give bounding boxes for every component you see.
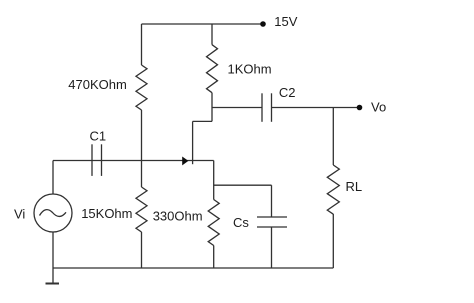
wire 330 bottom [213,246,215,269]
svg-text:RL: RL [346,179,363,194]
resistor R4 330Ohm [208,200,219,246]
svg-text:Vi: Vi [14,207,25,222]
wire drain [211,93,213,122]
wire 470K bottom to gate node [141,110,143,187]
wire gate and source line [53,160,214,162]
ground bar [46,283,60,285]
wire RL branch upper [332,108,334,166]
wire 470K branch upper [141,24,143,65]
transistor Q1 gate arrow [182,157,188,166]
svg-text:470KOhm: 470KOhm [68,77,127,92]
wire 15K bottom [141,232,143,268]
wire Vi bottom [52,232,54,268]
source Vi circle [34,194,72,232]
wire source to Cs [214,184,272,186]
svg-text:Vo: Vo [371,100,386,115]
wire top rail [142,23,264,25]
resistor RL [327,165,339,214]
source Vi sine [40,210,67,217]
transistor Q1 channel bar [192,121,194,164]
wire drain to C2 [212,107,262,109]
svg-text:15KOhm: 15KOhm [81,206,132,221]
capacitor C2 [262,93,272,122]
svg-text:15V: 15V [274,14,297,29]
capacitor C1 [92,144,102,176]
wire bottom rail [53,267,333,269]
wire C2 to Vo [272,107,360,109]
node 15V dot [260,21,266,27]
svg-text:Cs: Cs [233,215,249,230]
resistor R3 1KOhm [207,45,218,93]
wire source branch down [213,161,215,200]
transistor Q1 drain step [193,120,212,122]
wire 1K branch upper [211,24,213,45]
svg-text:C2: C2 [279,85,296,100]
wire Cs upper [271,185,273,217]
ground stem [52,268,54,283]
svg-text:C1: C1 [90,129,107,144]
wire Cs bottom [271,227,273,268]
capacitor Cs [257,217,287,227]
wire Vi top [52,161,54,195]
svg-text:330Ohm: 330Ohm [153,209,203,224]
svg-text:1KOhm: 1KOhm [228,62,272,77]
resistor R1 470KOhm [136,65,147,110]
node Vo dot [357,105,363,111]
resistor R2 15KOhm [136,187,147,232]
wire RL bottom [332,214,334,268]
